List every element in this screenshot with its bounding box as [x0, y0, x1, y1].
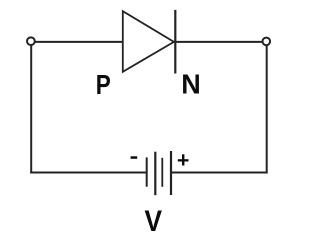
wire top-right (cathode to right terminal) [175, 41, 262, 43]
battery V negative short plate [146, 157, 148, 186]
wire top-left (terminal to diode anode) [35, 41, 123, 43]
svg-text:P: P [96, 69, 111, 100]
svg-text:N: N [181, 69, 201, 100]
battery V positive long plate [170, 151, 172, 195]
diode cathode bar [174, 10, 176, 74]
svg-text:V: V [145, 205, 163, 233]
battery V long plate 1 [154, 152, 156, 196]
battery V short plate 2 [161, 158, 163, 187]
diode D anode triangle [123, 11, 174, 72]
battery minus polarity sign [131, 156, 138, 159]
battery plus polarity sign horizontal bar [178, 159, 189, 161]
node: left input terminal [27, 37, 35, 45]
wire left side [30, 45, 32, 173]
wire bottom-right (battery positive to right side) [171, 172, 268, 174]
battery plus polarity sign vertical bar [182, 154, 184, 165]
node: right output terminal [263, 38, 271, 46]
wire bottom-left (to battery negative) [30, 172, 147, 174]
wire right side [266, 45, 268, 173]
